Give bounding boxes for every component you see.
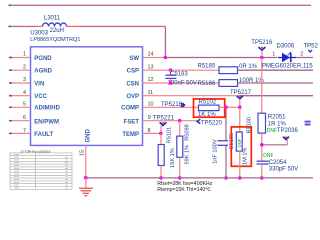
pin 12 CSN <box>143 82 220 84</box>
pin 6 EN/PWM <box>9 120 31 122</box>
inductor L3011 <box>43 23 67 26</box>
svg-text:1K 1%: 1K 1% <box>198 112 216 118</box>
svg-text:Rtemp=15K Tht=140℃: Rtemp=15K Tht=140℃ <box>157 187 211 193</box>
svg-text:TP5220: TP5220 <box>201 120 223 126</box>
svg-text:15K 1%: 15K 1% <box>170 148 176 168</box>
svg-text:R5098: R5098 <box>185 124 191 140</box>
svg-text:EN/PWM: EN/PWM <box>34 119 59 125</box>
svg-text:330pF 50V: 330pF 50V <box>269 166 298 172</box>
wire diode cathode out <box>296 57 313 59</box>
capacitor C5186 <box>225 107 227 141</box>
svg-text:1M 1%: 1M 1% <box>243 148 249 165</box>
svg-text:FSET: FSET <box>124 119 140 125</box>
svg-text:D3006: D3006 <box>277 44 295 50</box>
wire OVP out <box>240 95 313 97</box>
resistor R2051 <box>258 113 266 133</box>
pin 7 FAULT <box>9 132 31 134</box>
svg-text:PGND: PGND <box>34 56 52 62</box>
pin 10 COMP <box>143 106 199 108</box>
wire SW net to diode <box>165 57 277 59</box>
wire ground bus <box>86 177 313 179</box>
svg-text:1R 1%: 1R 1% <box>268 121 287 127</box>
svg-text:VIN: VIN <box>34 81 44 87</box>
svg-text:4: 4 <box>23 90 26 96</box>
svg-text:LP8865YQDMTRQ1: LP8865YQDMTRQ1 <box>30 37 80 43</box>
svg-text:L3011: L3011 <box>44 16 61 22</box>
pin 3 VIN <box>9 82 31 84</box>
svg-text:TP52: TP52 <box>304 44 319 50</box>
svg-text:DNF: DNF <box>237 138 242 147</box>
svg-text:9: 9 <box>148 115 151 121</box>
node COMP R5100 junction <box>238 106 242 110</box>
pin 11 OVP <box>143 95 241 97</box>
svg-text:6: 6 <box>23 115 26 121</box>
svg-text:1: 1 <box>23 52 26 58</box>
svg-text:TP5221: TP5221 <box>153 115 175 121</box>
svg-text:AGND: AGND <box>34 69 52 75</box>
node TP5216 junction <box>260 56 264 60</box>
svg-text:DNF: DNF <box>267 128 277 134</box>
svg-text:R5186: R5186 <box>198 81 216 87</box>
wire SW drop from inductor rail <box>164 26 166 57</box>
ground <box>85 178 87 188</box>
node C5186 bus junction <box>224 176 228 180</box>
node COMP C5186 junction <box>224 105 228 109</box>
svg-text:GND: GND <box>86 129 92 143</box>
svg-text:15: 15 <box>80 150 86 156</box>
svg-text:VCC: VCC <box>34 94 47 100</box>
svg-text:C2054: C2054 <box>269 160 287 166</box>
pin 8 TEMP <box>143 132 161 134</box>
IC U3003 body <box>31 47 143 146</box>
capacitor C5183 <box>170 70 172 75</box>
node FSET R5098 junction <box>178 119 182 123</box>
svg-text:COMP: COMP <box>121 106 139 112</box>
node SW junction <box>164 56 168 60</box>
off-page symbol right <box>305 121 311 123</box>
wire CSP out <box>238 69 314 71</box>
pin 2 AGND <box>9 69 31 71</box>
svg-text:TP5218: TP5218 <box>161 102 183 108</box>
svg-text:C5186: C5186 <box>229 133 235 149</box>
node CSN junction <box>169 81 173 85</box>
svg-text:FAULT: FAULT <box>34 132 53 138</box>
svg-text:1: 1 <box>272 52 275 58</box>
svg-text:R5185: R5185 <box>198 64 216 70</box>
pin 9 FSET <box>143 120 198 122</box>
svg-text:2: 2 <box>300 51 303 57</box>
resistor R5098 <box>179 121 181 136</box>
svg-text:OVP: OVP <box>126 94 139 100</box>
svg-text:TP2036: TP2036 <box>277 128 299 134</box>
svg-text:R2051: R2051 <box>268 115 286 121</box>
svg-text:7: 7 <box>23 128 26 134</box>
node CSP junction <box>169 68 173 72</box>
svg-text:8: 8 <box>148 128 151 134</box>
svg-text:TP5216: TP5216 <box>251 40 273 46</box>
wire CSN out <box>238 82 314 84</box>
pin 4 VCC <box>9 95 31 97</box>
svg-text:TP5217: TP5217 <box>230 90 252 96</box>
resistor R5100 <box>239 107 241 132</box>
wire COMP after R5102 <box>219 106 240 108</box>
node R5101 bus junction <box>159 176 163 180</box>
svg-text:R5101: R5101 <box>166 127 172 143</box>
svg-text:22uH: 22uH <box>50 28 64 34</box>
svg-text:PMEG6020ER,115: PMEG6020ER,115 <box>262 63 313 69</box>
pin 14 SW <box>143 57 166 59</box>
pin 1 PGND <box>9 57 31 59</box>
svg-text:C5183: C5183 <box>170 71 188 77</box>
pin 15 GND pad <box>85 145 87 178</box>
svg-text:3: 3 <box>23 77 26 83</box>
svg-text:ADIM/HD: ADIM/HD <box>34 106 60 112</box>
svg-text:DNF: DNF <box>263 153 273 159</box>
resistor R5101 <box>160 133 162 144</box>
svg-text:5: 5 <box>23 102 26 108</box>
svg-text:59K 1%: 59K 1% <box>185 145 191 165</box>
svg-text:R5100: R5100 <box>246 117 252 133</box>
svg-text:U3003: U3003 <box>30 31 48 37</box>
svg-text:2: 2 <box>23 64 26 70</box>
node R5098 bus junction <box>178 176 182 180</box>
node GND bus junction <box>84 176 88 180</box>
wire top rail <box>9 4 312 6</box>
svg-text:SW: SW <box>129 56 139 62</box>
wire R2051 to C2054 <box>261 133 263 161</box>
node R5100 bus junction <box>238 176 242 180</box>
svg-text:1nF 100V: 1nF 100V <box>213 139 219 164</box>
table <box>10 153 72 189</box>
svg-text:13: 13 <box>148 64 154 70</box>
pin 5 ADIM/HD <box>9 106 31 108</box>
svg-text:10: 10 <box>148 102 154 108</box>
wire inductor rail <box>9 25 37 27</box>
svg-text:TEMP: TEMP <box>122 132 139 138</box>
svg-text:CSN: CSN <box>126 81 139 87</box>
node snubber mid junction <box>260 143 264 147</box>
pin 13 CSP <box>143 69 220 71</box>
resistor R5102 <box>194 99 225 117</box>
node TEMP R5101 junction <box>159 132 163 136</box>
wire snubber drop from SW <box>261 58 263 114</box>
svg-text:12: 12 <box>148 77 154 83</box>
wire TP5221 stub to TEMP <box>160 126 162 134</box>
svg-text:11: 11 <box>148 90 154 96</box>
svg-text:Rfset=28K fsw=400KHz: Rfset=28K fsw=400KHz <box>157 181 212 187</box>
svg-text:14: 14 <box>148 52 154 58</box>
node C2054 bus junction <box>260 176 264 180</box>
svg-text:CSP: CSP <box>127 69 139 75</box>
svg-text:0R 1%: 0R 1% <box>239 64 258 70</box>
wire TP5217 stub <box>239 99 241 107</box>
test point TP5220 <box>197 119 200 123</box>
